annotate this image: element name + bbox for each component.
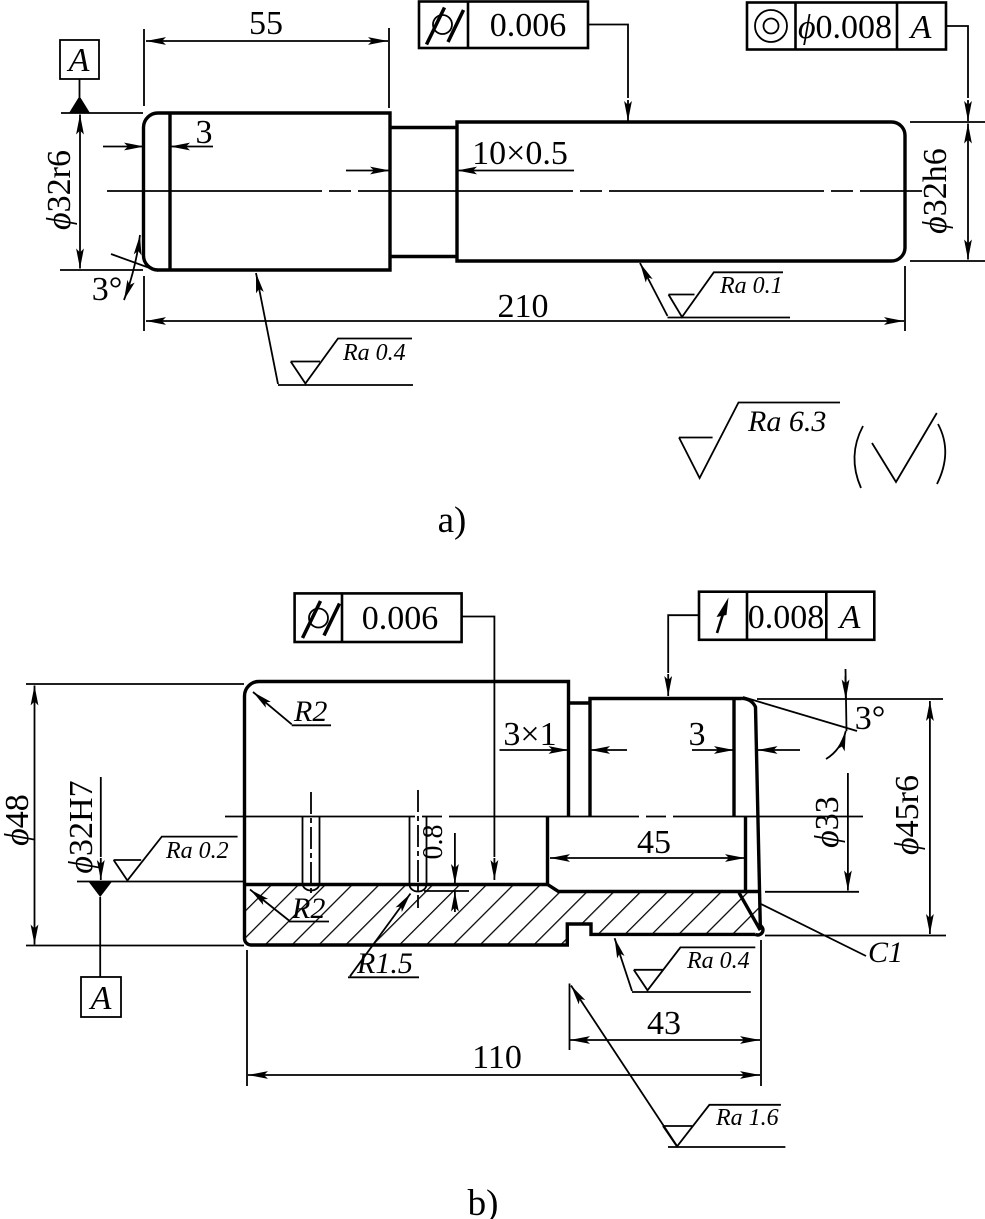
dimension 10x0.5 groove (a) bbox=[346, 135, 574, 172]
svg-text:210: 210 bbox=[498, 288, 549, 325]
chamfer C1 leader (b) bbox=[761, 904, 903, 969]
cylindricity tolerance frame (b) bbox=[295, 593, 462, 642]
cylindricity tolerance frame (a) bbox=[419, 2, 588, 49]
dimension phi32r6 (a) bbox=[41, 115, 143, 271]
svg-text:Ra 6.3: Ra 6.3 bbox=[747, 405, 826, 438]
leader of cylindricity frame (a) bbox=[588, 25, 628, 99]
svg-text:ϕ0.008: ϕ0.008 bbox=[798, 9, 892, 46]
dimension phi48 (b) bbox=[0, 684, 244, 946]
svg-text:43: 43 bbox=[647, 1005, 681, 1042]
svg-text:A: A bbox=[89, 980, 112, 1017]
svg-text:3°: 3° bbox=[92, 271, 123, 308]
dimension phi32h6 (a) bbox=[910, 122, 985, 261]
svg-text:3: 3 bbox=[196, 114, 213, 151]
body upper outline (b) bbox=[245, 682, 763, 935]
svg-text:ϕ48: ϕ48 bbox=[0, 794, 36, 846]
dimension 45 (b) bbox=[550, 824, 745, 861]
surface finish Ra 0.2 (b) bbox=[114, 837, 238, 881]
svg-text:3°: 3° bbox=[855, 700, 886, 737]
svg-text:Ra 0.4: Ra 0.4 bbox=[686, 948, 750, 974]
dimension 110 (b) bbox=[247, 950, 760, 1086]
bore chamfer edge line (b) bbox=[744, 817, 747, 892]
surface finish Ra 1.6 with leader (b) bbox=[571, 986, 785, 1148]
svg-text:A: A bbox=[909, 9, 932, 46]
dimension 43 (b) bbox=[570, 940, 762, 1086]
svg-text:A: A bbox=[67, 42, 90, 79]
bore surface extension line (b) bbox=[77, 881, 244, 883]
shaft left section outline (a) bbox=[144, 113, 391, 270]
dimension phi32H7 with datum A (b) bbox=[63, 777, 101, 880]
svg-text:a): a) bbox=[438, 500, 467, 541]
svg-text:0.8: 0.8 bbox=[418, 825, 449, 860]
svg-text:45: 45 bbox=[637, 824, 671, 861]
datum A symbol (a) bbox=[60, 40, 99, 113]
dimension 3 chamfer (a) bbox=[103, 114, 213, 151]
svg-text:ϕ33: ϕ33 bbox=[809, 796, 846, 848]
svg-text:110: 110 bbox=[472, 1039, 522, 1076]
radius R2 top-left leader (b) bbox=[253, 692, 331, 728]
angle 3 deg (b) bbox=[743, 669, 885, 759]
svg-text:55: 55 bbox=[249, 5, 283, 42]
svg-text:3×1: 3×1 bbox=[503, 716, 556, 753]
radius R2 bore corner leader (b) bbox=[250, 890, 329, 926]
dimension 210 (a) bbox=[144, 266, 905, 331]
svg-text:0.006: 0.006 bbox=[490, 7, 567, 44]
svg-text:0.008: 0.008 bbox=[748, 599, 825, 636]
surface finish Ra 0.1 (a) bbox=[640, 263, 790, 318]
angle 3 deg (a) bbox=[92, 235, 158, 308]
C1 chamfer edge across corner (b) bbox=[739, 893, 760, 931]
svg-text:ϕ45r6: ϕ45r6 bbox=[889, 775, 926, 855]
svg-text:R2: R2 bbox=[293, 695, 327, 728]
dimension 55 (a) bbox=[144, 5, 389, 108]
svg-text:R2: R2 bbox=[291, 892, 325, 925]
counterbore face line (b) bbox=[546, 817, 549, 885]
leader of runout frame (b) bbox=[668, 615, 699, 673]
leader of cylindricity frame (b) bbox=[462, 617, 495, 858]
shaft chamfer edge line (a) bbox=[168, 113, 171, 270]
svg-text:Ra 0.4: Ra 0.4 bbox=[342, 340, 406, 366]
dimension 3 chamfer (b) bbox=[689, 716, 801, 753]
svg-text:R1.5: R1.5 bbox=[356, 947, 413, 980]
datum A symbol (b) bbox=[81, 882, 121, 1017]
circular runout tolerance frame (b) bbox=[699, 592, 874, 640]
svg-text:b): b) bbox=[468, 1183, 499, 1219]
hatch fill of section (b) bbox=[245, 885, 764, 946]
hole 2 (b) bbox=[410, 790, 427, 908]
surface finish Ra 0.4 (a) bbox=[256, 273, 413, 385]
general surface note Ra 6.3 with check (a) bbox=[679, 403, 945, 489]
shaft neck bottom edge (a) bbox=[390, 255, 457, 258]
dimension phi45r6 (b) bbox=[765, 701, 946, 936]
section boundary lines (b) bbox=[245, 885, 761, 946]
dimension 0.8 (b) bbox=[418, 825, 469, 913]
svg-text:Ra 1.6: Ra 1.6 bbox=[715, 1105, 779, 1131]
svg-text:0.006: 0.006 bbox=[362, 600, 439, 637]
shaft neck top edge (a) bbox=[390, 126, 457, 129]
top edge extension line (b) bbox=[757, 698, 943, 700]
shaft right section outline (a) bbox=[457, 122, 905, 261]
radius R1.5 leader (b) bbox=[348, 894, 419, 981]
datum surface line (a) bbox=[61, 112, 143, 114]
svg-text:ϕ32r6: ϕ32r6 bbox=[41, 150, 78, 230]
svg-text:A: A bbox=[838, 599, 861, 636]
svg-text:ϕ32H7: ϕ32H7 bbox=[63, 780, 100, 873]
svg-text:Ra 0.1: Ra 0.1 bbox=[719, 273, 783, 299]
dimension 3x1 groove (b) bbox=[500, 716, 628, 753]
leader of concentricity frame (a) bbox=[946, 26, 968, 98]
centerline (b) bbox=[225, 816, 868, 818]
shaft centerline (a) bbox=[107, 190, 922, 192]
hole 1 (b) bbox=[303, 792, 320, 897]
concentricity tolerance frame (a) bbox=[747, 3, 946, 50]
surface finish Ra 0.4 (b) bbox=[615, 938, 756, 992]
dimension phi33 (b) bbox=[765, 773, 859, 892]
svg-text:3: 3 bbox=[689, 716, 706, 753]
svg-text:10×0.5: 10×0.5 bbox=[472, 135, 568, 172]
svg-text:C1: C1 bbox=[868, 936, 903, 969]
svg-text:Ra 0.2: Ra 0.2 bbox=[165, 838, 229, 864]
svg-text:ϕ32h6: ϕ32h6 bbox=[917, 148, 954, 234]
